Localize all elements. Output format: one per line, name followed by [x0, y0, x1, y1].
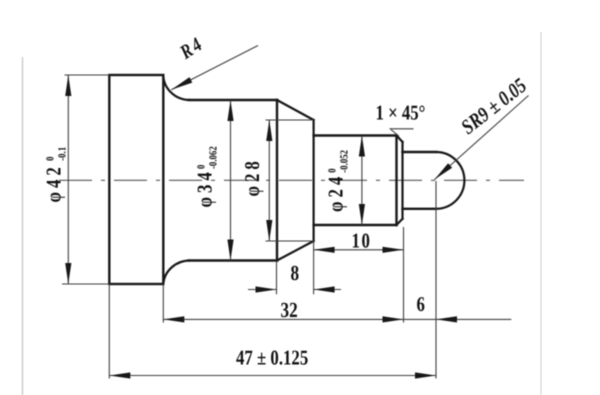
dimension 32: arrow right: [383, 316, 404, 322]
dimension phi28: extension lines: [266, 120, 314, 241]
svg-text:SR9 ± 0.05: SR9 ± 0.05: [456, 73, 531, 139]
dimension phi24: dimension line: [361, 136, 363, 226]
svg-text:6: 6: [417, 292, 425, 316]
svg-text:1 × 45°: 1 × 45°: [376, 101, 426, 125]
svg-text:φ240-0.052: φ240-0.052: [324, 150, 351, 212]
leader 1x45: slant line: [391, 130, 399, 137]
dimension 47: arrow right: [415, 372, 436, 378]
dimension 8: extension line right (shoulder): [313, 241, 315, 294]
dimension phi34: dimension line: [230, 100, 232, 261]
svg-text:47 ± 0.125: 47 ± 0.125: [236, 346, 308, 370]
part outline: fillet R4 top: [163, 75, 190, 101]
dimension phi42: dimension line: [67, 75, 69, 284]
leader 1x45: shelf line: [390, 128, 414, 130]
part outline: phi24 section: [314, 136, 397, 226]
dimension 32-6 chain line: [163, 318, 511, 320]
dimension 47: extension line left: [108, 284, 110, 379]
svg-text:φ28: φ28: [240, 157, 264, 196]
leader SR9: arrow: [435, 163, 453, 179]
part outline: SR9 sphere end arc: [436, 152, 464, 209]
dimension phi24: arrow up: [359, 136, 365, 157]
svg-text:32: 32: [281, 298, 298, 322]
dimension 10: dimension line: [314, 249, 404, 251]
svg-text:8: 8: [291, 261, 300, 285]
dimension 47: arrow left: [109, 372, 130, 378]
dimension 8: right tail and arrow: [314, 289, 341, 291]
part outline: taper cone phi34 to phi28: [277, 100, 314, 261]
dimension phi28: arrow down: [266, 220, 272, 241]
dimension phi42: extension lines: [62, 75, 109, 284]
svg-text:R4: R4: [176, 32, 208, 64]
dimension phi42: arrow down: [65, 263, 71, 284]
dimension 47: dimension line: [109, 375, 436, 377]
part outline: phi42 cylinder body: [109, 75, 163, 284]
dimension 8: left tail and arrow: [248, 289, 277, 291]
dimension phi42: arrow up: [65, 75, 71, 96]
scan artifact right border line: [540, 32, 542, 395]
svg-text:10: 10: [352, 229, 372, 253]
dimension 6: arrow right outside: [436, 316, 457, 322]
part outline: sphere stub neck: [403, 152, 437, 209]
svg-text:φ340-0.062: φ340-0.062: [193, 146, 220, 208]
dimension 10: arrow left: [314, 247, 335, 253]
centerline (dash-dot axis): [59, 179, 524, 181]
dimension 32 and 6: shared extension line below phi42 right face: [162, 284, 164, 323]
part outline: phi34 section: [189, 100, 277, 261]
dimension 32/6: extension line at phi24 end face: [403, 227, 405, 323]
svg-text:φ420-0.1: φ420-0.1: [42, 147, 69, 203]
dimension phi28: arrow up: [266, 120, 272, 141]
dimension phi34: arrow up: [227, 100, 233, 121]
dimension phi24: arrow down: [359, 204, 365, 225]
dimension 10: arrow right: [383, 247, 404, 253]
scan artifact left border line: [22, 57, 24, 395]
leader R4: line: [171, 46, 258, 90]
dimension phi34: arrow down: [227, 240, 233, 261]
dimension 8: extension line left: [276, 261, 278, 295]
leader R4: arrow: [171, 77, 192, 90]
dimension phi28: dimension line: [268, 120, 270, 241]
dimension 32: arrow left: [163, 316, 184, 322]
part outline: fillet R4 bottom: [163, 260, 190, 284]
part outline: chamfer 1x45 at end of phi24: [397, 136, 403, 226]
dimension 6/47: extension line at sphere junction: [435, 181, 437, 379]
leader SR9: line: [435, 96, 529, 180]
